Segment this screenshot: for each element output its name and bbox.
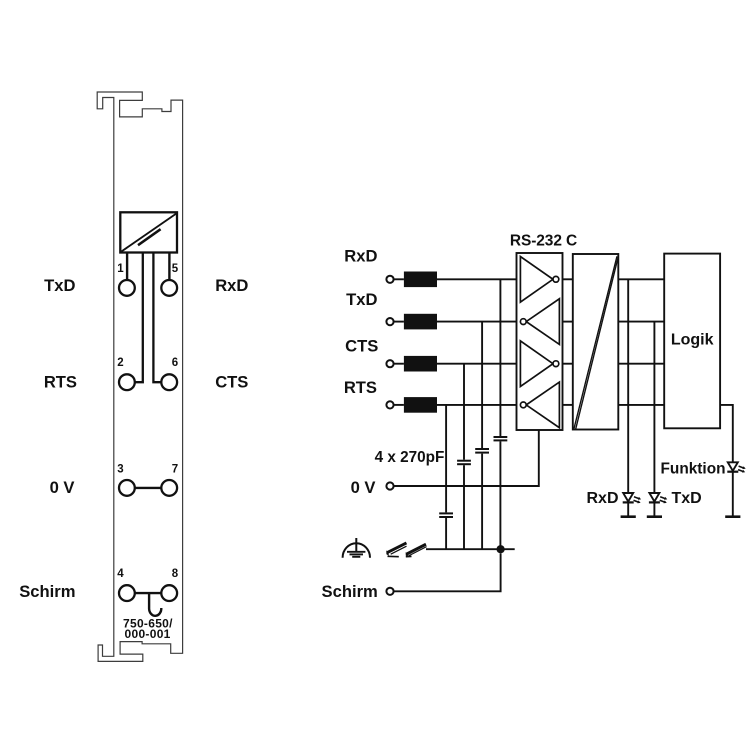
wire TxD row [394, 321, 404, 323]
svg-text:3: 3 [117, 464, 123, 476]
svg-text:7: 7 [172, 464, 178, 476]
buffer 2 (TxD, points left) [526, 299, 559, 345]
pin 5 contact [161, 280, 177, 296]
pin 7 contact [161, 480, 177, 496]
pin 6 contact [161, 374, 177, 390]
wire 0 V to RS-232 block [394, 430, 539, 486]
earth symbol [343, 538, 370, 558]
module housing outline [97, 92, 182, 661]
buffer 3 (CTS, points right) [520, 341, 553, 387]
capacitor wire from TxD row [481, 322, 483, 448]
svg-text:4 x 270pF: 4 x 270pF [375, 449, 445, 466]
svg-text:Funktion: Funktion [661, 461, 726, 478]
LED RxD riser wire [627, 279, 629, 493]
capacitor C1 [494, 436, 508, 438]
svg-text:TxD: TxD [346, 290, 377, 309]
capacitor wire from CTS row [463, 364, 465, 460]
LED TxD riser wire [653, 322, 655, 493]
ground bus wire [426, 548, 515, 550]
wire Schirm to bus [394, 553, 501, 591]
pin 8 contact [161, 585, 177, 601]
shield hook on pin4-8 wire [149, 593, 161, 616]
terminal CTS [386, 360, 393, 367]
wire pin4-pin8 [135, 592, 162, 594]
svg-text:RTS: RTS [344, 378, 377, 397]
wire RxD row [394, 278, 404, 280]
svg-text:5: 5 [172, 263, 179, 275]
LED Funktion ground bar [725, 515, 740, 518]
terminal TxD [386, 318, 393, 325]
wires RS-232 block to isolation block [563, 278, 573, 280]
junction dot [497, 545, 505, 553]
terminal RTS [386, 401, 393, 408]
resistor CTS [404, 356, 437, 372]
LED TxD [649, 493, 667, 503]
LED RxD ground bar [621, 515, 636, 518]
resistor RxD [404, 272, 437, 288]
svg-text:8: 8 [172, 568, 179, 580]
buffer 1 (RxD, points right) [520, 257, 553, 303]
buffer 4 (RTS, points left) [526, 382, 559, 428]
LED RxD [623, 493, 641, 503]
svg-text:Schirm: Schirm [19, 582, 75, 601]
svg-text:RxD: RxD [344, 247, 377, 266]
svg-text:1: 1 [117, 263, 124, 275]
RS-232 C block [517, 253, 563, 430]
svg-text:RxD: RxD [215, 276, 248, 295]
pin 4 contact [119, 585, 135, 601]
capacitor C4 [439, 512, 453, 514]
resistor TxD [404, 314, 437, 330]
capacitor wire from RxD row [499, 279, 501, 436]
terminal 0 V [386, 482, 393, 489]
isolation transformer box [120, 212, 177, 252]
resistor RTS [404, 397, 437, 413]
svg-text:RTS: RTS [44, 373, 77, 392]
LED Funktion [727, 462, 745, 472]
wire pin 1 stub [126, 253, 128, 281]
svg-text:RxD: RxD [586, 490, 618, 507]
svg-text:CTS: CTS [345, 337, 378, 356]
svg-text:0 V: 0 V [351, 478, 376, 497]
capacitor C3 [457, 460, 471, 462]
svg-text:6: 6 [172, 357, 178, 369]
capacitor wire from RTS row [445, 405, 447, 513]
pin 1 contact [119, 280, 135, 296]
Logik block [664, 254, 720, 429]
svg-text:0 V: 0 V [50, 478, 75, 497]
svg-text:TxD: TxD [44, 276, 75, 295]
Funktion branch wire [720, 405, 733, 462]
LED TxD ground bar [647, 515, 662, 518]
wire middle right to pin 6 [153, 253, 161, 383]
svg-text:2: 2 [117, 357, 123, 369]
svg-text:Schirm: Schirm [322, 582, 378, 601]
terminal Schirm [386, 588, 393, 595]
isolation block [573, 254, 619, 430]
svg-text:000-001: 000-001 [125, 627, 171, 641]
capacitor C2 [475, 448, 489, 450]
svg-text:TxD: TxD [672, 490, 702, 507]
terminal RxD [386, 276, 393, 283]
pin 3 contact [119, 480, 135, 496]
wire RTS row [394, 404, 404, 406]
wire CTS row [394, 363, 404, 365]
wire pin 5 stub [168, 253, 170, 281]
shield clamp rail icon [386, 542, 426, 557]
wire pin3-pin7 [135, 487, 162, 489]
wires isolation block to Logik block [618, 278, 664, 280]
svg-text:Logik: Logik [671, 331, 714, 348]
svg-text:4: 4 [117, 568, 124, 580]
svg-text:CTS: CTS [215, 373, 248, 392]
svg-text:RS-232 C: RS-232 C [510, 232, 577, 249]
wire middle left to pin 2 [135, 253, 143, 383]
pin 2 contact [119, 374, 135, 390]
